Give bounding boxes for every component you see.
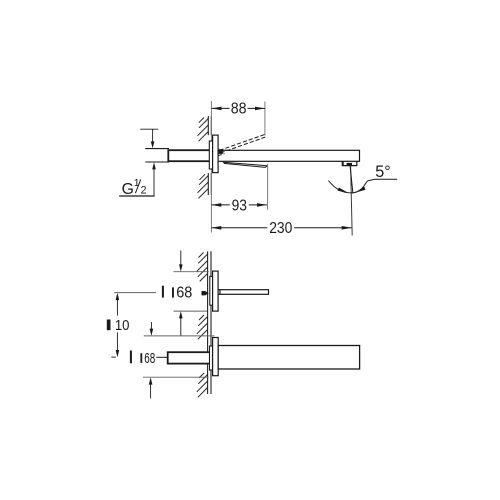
dimension 110: label <box>107 318 130 334</box>
wall extension line (left reference for 88/93/230) <box>210 101 212 233</box>
raised lever (dashed) <box>218 135 266 156</box>
spout tube <box>218 346 359 370</box>
svg-text:5°: 5° <box>375 163 390 181</box>
dimension 68 upper: label <box>162 285 193 302</box>
lever pivot knuckle <box>218 149 223 154</box>
dimension 68 lower: extension lines <box>144 335 215 337</box>
lowered lever (solid wedge) <box>223 162 267 167</box>
arc arrow left <box>338 188 349 193</box>
wall upper hatch band <box>198 116 212 141</box>
dimension 68 lower: arrows <box>149 322 153 399</box>
spout axis vertical reference line <box>351 166 353 236</box>
G 1/2 underline <box>119 195 154 197</box>
handle flange <box>210 276 213 305</box>
spout (side view) <box>218 150 359 161</box>
escutcheon (side view) <box>213 135 219 173</box>
spout axis 5-degree tilted line <box>350 166 353 194</box>
dimension 110: extension tick bottom <box>111 356 116 358</box>
wall lines <box>207 251 209 394</box>
G 1/2 leader arrow (up) <box>152 162 156 196</box>
svg-text:230: 230 <box>269 220 292 237</box>
svg-text:68: 68 <box>144 351 155 367</box>
svg-text:68: 68 <box>176 285 192 302</box>
wall hatch band 3 <box>197 373 208 397</box>
G 1/2 text <box>122 178 147 198</box>
dimension 88 <box>212 101 265 136</box>
supply pipe <box>145 149 169 162</box>
aerator under spout end <box>342 161 357 165</box>
svg-text:2: 2 <box>141 184 147 196</box>
concealed spout body (behind wall) <box>168 352 212 363</box>
dimension 68 upper: arrows <box>179 251 183 336</box>
pipe thread tick <box>140 128 158 130</box>
handle lever joint <box>219 289 221 295</box>
handle lever <box>218 290 268 295</box>
wall lower hatch band <box>198 173 212 198</box>
svg-text:G: G <box>122 181 134 198</box>
arc arrow right <box>355 187 365 193</box>
svg-text:88: 88 <box>231 101 247 118</box>
dimension 110: extension line top <box>114 292 156 294</box>
svg-text:10: 10 <box>115 318 130 334</box>
mounting flange (behind escutcheon) <box>209 141 212 169</box>
dimension 230 <box>211 220 351 237</box>
5-degree arc <box>328 181 367 193</box>
union body <box>168 150 212 161</box>
wall hatch band 2 <box>197 315 208 339</box>
dimension 110: line and arrows <box>116 293 120 358</box>
dimension 68 upper: extension lines <box>174 271 209 273</box>
dimension 93 <box>211 164 267 214</box>
dimension 68 lower: label <box>130 351 168 368</box>
svg-text:93: 93 <box>232 197 247 214</box>
spout escutcheon <box>213 338 219 376</box>
dimension 68 upper: solid pointer to wall <box>202 291 209 295</box>
handle escutcheon <box>213 271 219 311</box>
spout flange <box>210 346 213 370</box>
wall hatch band 1 <box>197 253 208 282</box>
pipe thread arrow (down) <box>151 129 155 148</box>
5-degree leader line <box>367 179 397 181</box>
